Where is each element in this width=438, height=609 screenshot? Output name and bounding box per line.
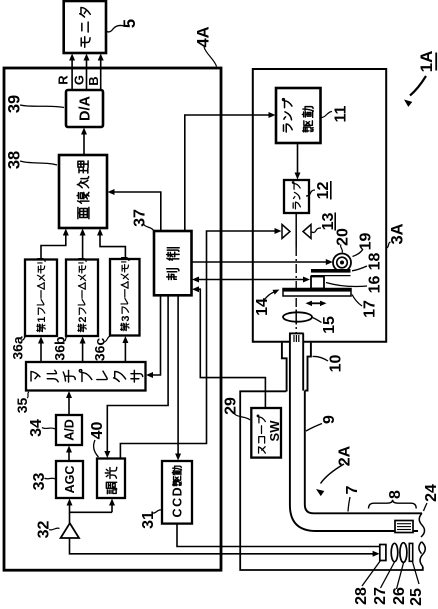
svg-text:38: 38: [5, 151, 23, 169]
svg-text:11: 11: [332, 105, 349, 122]
A/D box 34: [56, 415, 82, 445]
disk motion arrow: [309, 302, 323, 304]
wire dimmer branch: [70, 511, 113, 513]
dimmer box 40: [97, 459, 125, 499]
svg-text:31: 31: [140, 511, 157, 529]
svg-text:1: 1: [36, 317, 48, 323]
svg-text:D: D: [171, 487, 185, 496]
aperture blade 13 right: [303, 225, 311, 239]
svg-text:19: 19: [357, 233, 374, 251]
section bracket 8: [369, 500, 417, 509]
svg-text:39: 39: [5, 95, 23, 113]
svg-text:7: 7: [344, 485, 361, 494]
axis through lens: [295, 310, 297, 325]
svg-text:B: B: [86, 76, 101, 85]
cable break 25: [419, 542, 422, 554]
wire mpx to 36a: [40, 340, 42, 362]
scope outline: [240, 391, 423, 570]
motor 20: [333, 254, 351, 272]
component 27: [391, 543, 398, 561]
svg-text:SW: SW: [267, 420, 282, 442]
connector left shell: [282, 343, 287, 392]
wire G: [86, 58, 88, 90]
svg-text:14: 14: [254, 298, 271, 316]
scope switch box 29: [251, 408, 281, 458]
wire ctrl to motor: [192, 261, 329, 263]
wire dimmer to aperture: [120, 231, 277, 459]
control box 37: [154, 231, 192, 295]
svg-text:25: 25: [408, 588, 425, 606]
aperture blade 13 left: [282, 225, 290, 239]
light guide end 24: [395, 521, 413, 533]
connector right shell 10: [305, 343, 311, 391]
svg-text:9: 9: [321, 415, 338, 424]
CCD connector 28: [380, 545, 386, 561]
svg-text:27: 27: [372, 587, 389, 605]
component 25 bar: [409, 543, 412, 561]
wire lampdrive to lamp: [297, 143, 299, 176]
svg-text:16: 16: [366, 276, 383, 294]
filter disk 17: [283, 289, 351, 297]
svg-text:10: 10: [327, 355, 344, 373]
svg-text:18: 18: [366, 253, 383, 271]
wire B: [100, 58, 102, 90]
wire mpx to 36c: [124, 340, 126, 362]
tube end break: [419, 513, 424, 537]
wire 36c to 38: [100, 232, 125, 259]
wire ctrl to dimmer: [107, 295, 168, 454]
svg-text:C: C: [171, 508, 185, 517]
CCD drive box 31: [162, 461, 192, 524]
svg-text:G: G: [72, 75, 87, 85]
svg-text:1A: 1A: [417, 51, 436, 73]
D/A box 39: [66, 90, 103, 127]
svg-text:29: 29: [222, 397, 239, 415]
svg-text:26: 26: [391, 587, 408, 605]
connector cap: [289, 332, 304, 334]
svg-text:20: 20: [334, 228, 351, 246]
wire AGC to A/D: [68, 450, 70, 462]
svg-text:4A: 4A: [194, 26, 212, 47]
mount plate 18: [311, 269, 351, 273]
amplifier 32: [61, 523, 79, 538]
monitor box 5: [64, 1, 106, 53]
svg-text:28: 28: [353, 587, 370, 605]
wire 36a to 38: [41, 232, 66, 260]
svg-text:24: 24: [423, 484, 438, 502]
wire CCD drive out: [177, 524, 380, 547]
lamp drive box 11: [276, 88, 321, 143]
svg-text:33: 33: [31, 473, 48, 491]
svg-text:2A: 2A: [336, 445, 353, 466]
lamp box 12: [284, 180, 309, 213]
cord outer wall 9: [290, 333, 418, 531]
svg-text:C: C: [171, 498, 185, 507]
wire amp input: [70, 538, 376, 554]
frame memory box 36c: [110, 259, 140, 336]
svg-text:AGC: AGC: [63, 466, 77, 494]
wire imgproc to D/A: [83, 132, 85, 155]
cord inner wall: [303, 333, 422, 513]
component 26: [400, 543, 407, 563]
wire mpx to 36b: [82, 340, 84, 362]
svg-text:D/A: D/A: [78, 95, 94, 121]
svg-text:R: R: [56, 75, 71, 85]
light source frame 3A: [253, 69, 386, 342]
condenser lens 15: [283, 312, 312, 321]
frame memory box 36a: [25, 260, 57, 337]
AGC box 33: [56, 461, 83, 498]
svg-text:40: 40: [89, 422, 106, 440]
svg-text:37: 37: [131, 209, 148, 227]
wire scope SW to ctrl: [196, 289, 265, 408]
svg-text:15: 15: [321, 316, 338, 334]
wire ctrl to lampdrive: [185, 115, 272, 231]
svg-text:A/D: A/D: [63, 419, 77, 441]
optical axis: [295, 213, 297, 247]
svg-text:13: 13: [320, 213, 337, 231]
wire ctrl to imgproc: [112, 192, 161, 231]
svg-text:8: 8: [387, 490, 404, 499]
svg-text:3: 3: [120, 316, 132, 322]
multiplexer box 35: [26, 362, 146, 391]
svg-text:35: 35: [14, 398, 30, 414]
svg-text:5: 5: [121, 19, 139, 28]
wire A/D to mpx: [68, 395, 70, 415]
support 16: [311, 277, 324, 289]
wire ctrl-filter bidirectional: [196, 279, 306, 281]
wire 36b to 38: [82, 232, 84, 260]
svg-text:17: 17: [361, 300, 378, 318]
processor frame 4A: [4, 68, 221, 570]
svg-text:12: 12: [315, 182, 332, 200]
image processing box 38: [59, 155, 107, 228]
svg-text:3A: 3A: [388, 223, 406, 244]
wire ctrl to mpx: [150, 295, 161, 375]
wire ctrl to CCD drive: [177, 295, 179, 456]
wire R: [71, 58, 73, 90]
svg-text:2: 2: [77, 317, 89, 323]
frame memory box 36b: [66, 260, 98, 337]
